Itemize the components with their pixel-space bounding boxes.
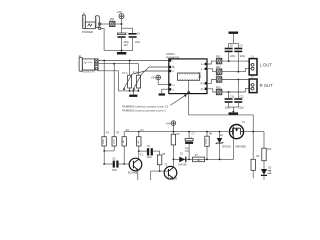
svg-text:220p: 220p [230,55,236,58]
svg-text:1N4148: 1N4148 [178,164,187,167]
svg-text:100n: 100n [112,169,118,172]
svg-text:FB5: FB5 [216,87,221,90]
svg-text:1M: 1M [123,140,125,143]
svg-text:P1.A: P1.A [122,72,128,75]
svg-text:BC546B: BC546B [168,177,178,180]
svg-text:AUDIO IN: AUDIO IN [82,70,94,74]
svg-text:C11: C11 [240,96,245,99]
svg-text:100n: 100n [147,156,153,159]
svg-text:10V: 10V [123,44,128,47]
svg-text:R10: R10 [267,149,272,151]
svg-text:16V: 16V [185,151,190,153]
svg-text:PMN45EN: PMN45EN [235,146,246,148]
svg-text:POWER: POWER [82,30,94,34]
svg-text:220p: 220p [240,55,246,58]
svg-text:R+: R+ [201,82,205,85]
svg-text:FB3: FB3 [216,66,221,69]
svg-text:PAM8302 (mono) connect to pin: PAM8302 (mono) connect to pin 1 [122,109,166,113]
svg-text:220p: 220p [238,107,244,110]
svg-text:V: V [84,60,87,65]
svg-text:G: G [172,89,174,91]
svg-text:P1.B: P1.B [133,72,139,75]
svg-text:FB2: FB2 [216,56,221,59]
svg-text:FB4: FB4 [216,74,221,77]
svg-text:100n: 100n [135,41,141,44]
svg-text:10µ: 10µ [185,148,190,150]
svg-text:220p: 220p [225,107,231,110]
svg-text:R OUT: R OUT [260,83,273,88]
svg-text:FB1: FB1 [110,17,115,21]
svg-text:BC546B: BC546B [128,172,138,175]
svg-text:ZPD30V: ZPD30V [222,146,231,149]
svg-text:L OUT: L OUT [260,62,273,67]
svg-text:C10: C10 [230,96,235,99]
